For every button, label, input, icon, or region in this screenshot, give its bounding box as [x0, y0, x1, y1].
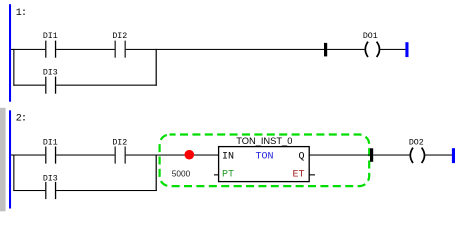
svg-text:DI2: DI2	[112, 138, 127, 147]
pin label IN	[222, 152, 234, 163]
left power rail (rung 2)	[9, 110, 11, 208]
selection bar (rung 2)	[0, 108, 6, 212]
literal 5000	[172, 169, 191, 179]
svg-text:ET: ET	[292, 170, 304, 181]
right power rail stub (rung 2)	[452, 148, 455, 163]
pin label ET	[292, 170, 304, 181]
pin label Q	[298, 152, 304, 163]
contact DI2 (rung 1)	[112, 32, 127, 57]
wire coil DO2 to right rail	[425, 155, 452, 156]
wire literal 5000 to PT pin stub	[214, 174, 219, 175]
parallel branch right vertical (rung 2)	[156, 155, 157, 192]
contact DI1 (rung 1)	[43, 32, 58, 57]
pin stub ET	[309, 174, 315, 175]
contact DI1 (rung 2)	[43, 138, 58, 163]
svg-text:2:: 2:	[16, 113, 26, 124]
junction mark (rung 2)	[370, 148, 373, 162]
wire DI2 to TON block IN pin (rung 2)	[126, 155, 219, 156]
power flow indicator dot (red)	[185, 150, 195, 160]
svg-text:Q: Q	[298, 152, 304, 163]
svg-text:DO2: DO2	[409, 138, 424, 147]
junction mark (rung 1)	[324, 43, 327, 57]
svg-text:1:: 1:	[16, 8, 26, 19]
parallel branch right vertical (rung 1)	[156, 49, 157, 86]
wire rail to contact DI1 (rung 1)	[11, 49, 45, 50]
svg-text:DI2: DI2	[112, 32, 127, 41]
svg-text:DO1: DO1	[363, 32, 378, 41]
contact DI3 (rung 2)	[43, 174, 58, 199]
wire rail to contact DI1 (rung 2)	[11, 155, 45, 156]
svg-text:DI3: DI3	[43, 68, 58, 77]
svg-text:DI3: DI3	[43, 174, 58, 183]
svg-text:PT: PT	[222, 170, 234, 181]
wire DI2 to junction (rung 1)	[126, 49, 324, 50]
svg-text:5000: 5000	[172, 169, 191, 179]
function block TON_INST_0 body	[219, 136, 310, 182]
wire DI1 to DI2 (rung 2)	[56, 155, 114, 156]
wire Q pin to junction (rung 2)	[309, 155, 370, 156]
parallel branch left vertical (rung 2)	[13, 155, 14, 192]
contact DI3 (rung 1)	[43, 68, 58, 93]
wire DI3 to branch join (rung 2)	[56, 190, 157, 191]
contact DI2 (rung 2)	[112, 138, 127, 163]
selection highlight dashed box around TON_INST_0	[160, 135, 370, 187]
wire junction to coil DO2	[373, 155, 409, 156]
parallel branch left vertical (rung 1)	[13, 49, 14, 86]
wire coil DO1 to right rail	[380, 49, 405, 50]
wire DI1 to DI2 (rung 1)	[56, 49, 114, 50]
svg-text:IN: IN	[222, 152, 234, 163]
svg-text:TON_INST_0: TON_INST_0	[236, 136, 292, 146]
coil DO1	[363, 32, 380, 57]
coil DO2	[409, 138, 425, 163]
rung 2 number label	[16, 113, 26, 124]
left power rail (rung 1)	[9, 4, 11, 102]
wire branch to contact DI3 (rung 2)	[13, 190, 45, 191]
right power rail stub (rung 1)	[405, 42, 408, 57]
wire DI3 to branch join (rung 1)	[56, 85, 157, 86]
rung 1 number label	[16, 8, 26, 19]
wire branch to contact DI3 (rung 1)	[13, 85, 45, 86]
svg-text:DI1: DI1	[43, 138, 58, 147]
wire junction to coil DO1	[327, 49, 364, 50]
block type label TON	[255, 152, 273, 163]
svg-text:TON: TON	[255, 152, 273, 163]
pin label PT	[222, 170, 234, 181]
svg-text:DI1: DI1	[43, 32, 58, 41]
